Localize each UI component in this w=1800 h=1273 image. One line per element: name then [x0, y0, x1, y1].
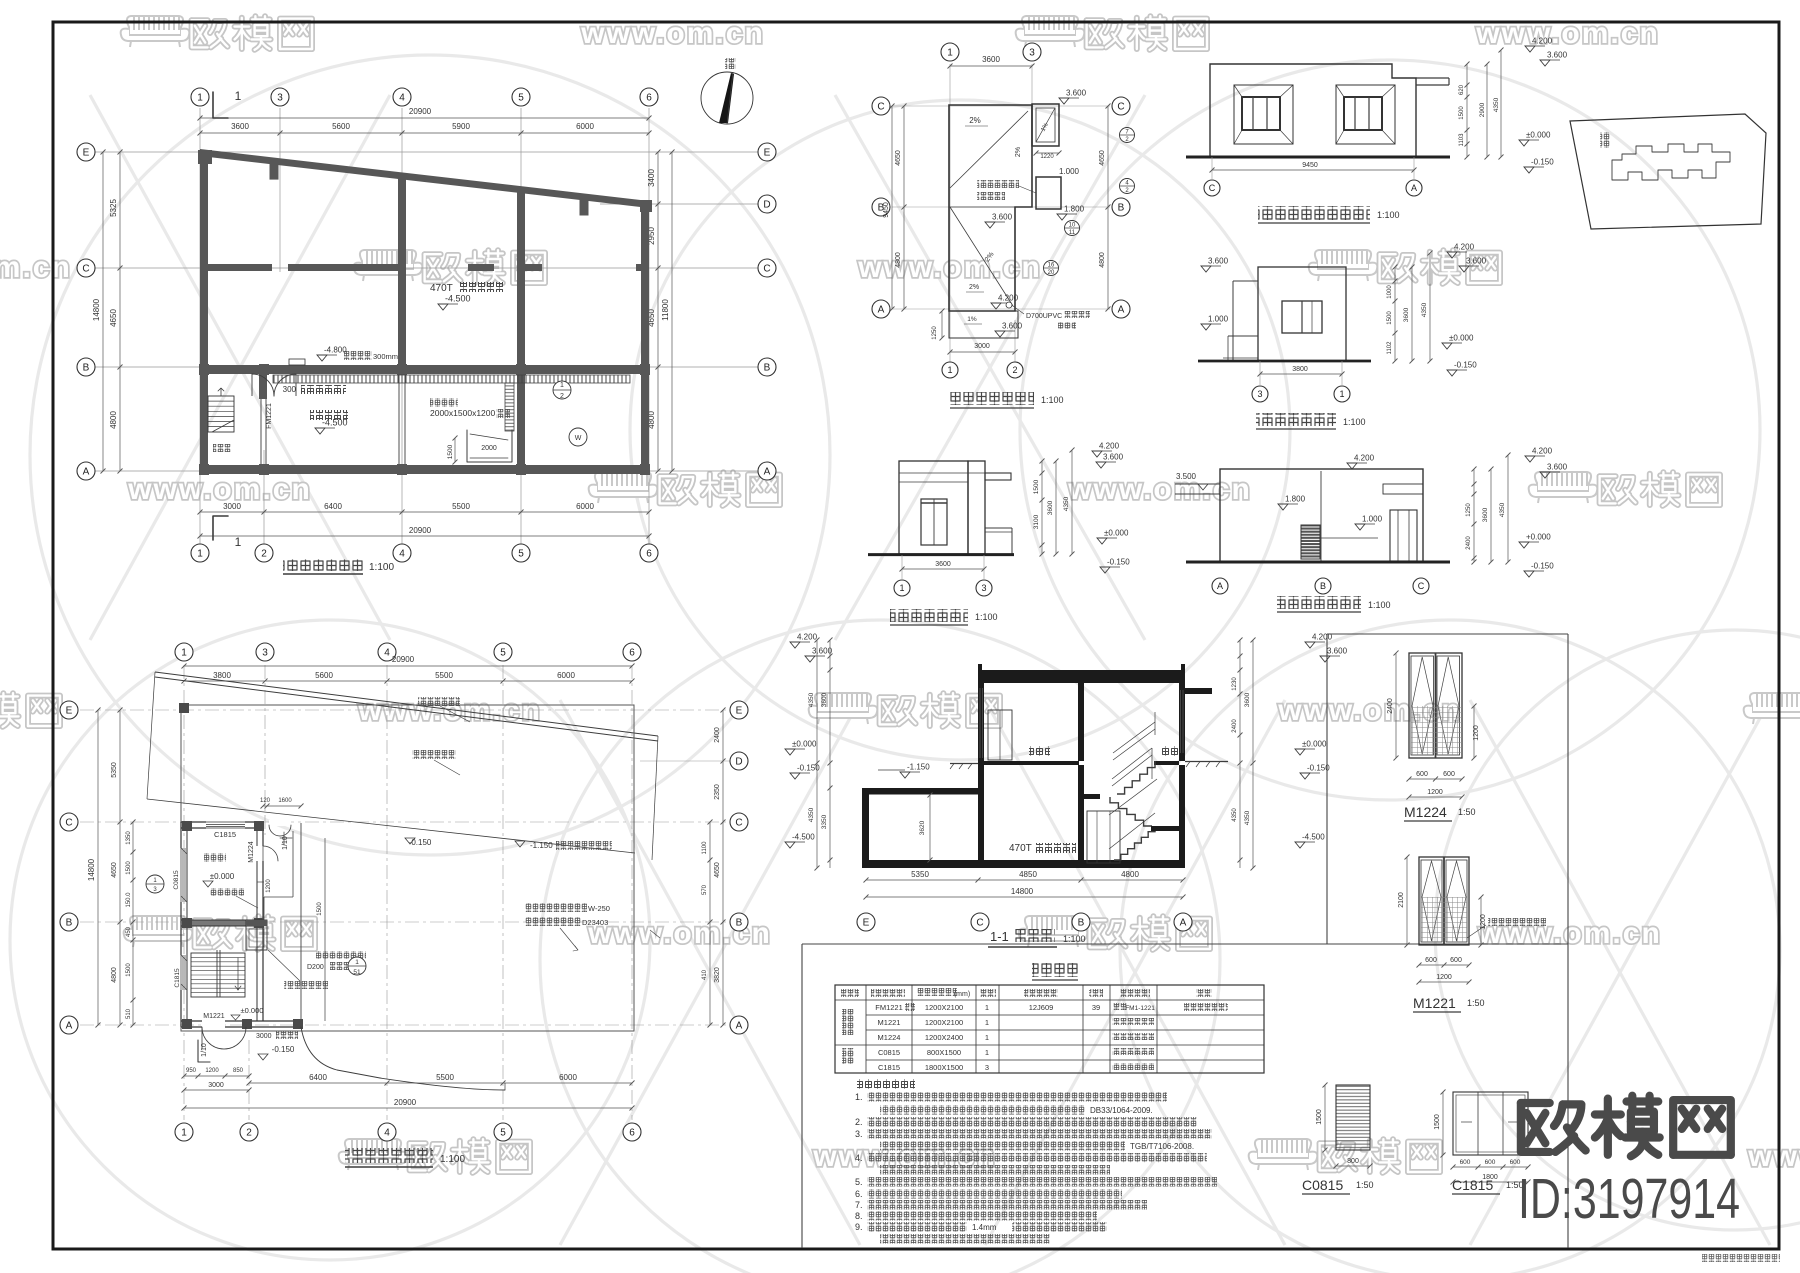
- svg-text:-4.500: -4.500: [792, 833, 815, 842]
- svg-text:3.600: 3.600: [1547, 463, 1568, 472]
- svg-text:M1221: M1221: [203, 1013, 225, 1020]
- svg-text:A: A: [1180, 918, 1187, 929]
- svg-text:1500: 1500: [447, 444, 454, 459]
- svg-text:4.200: 4.200: [1354, 454, 1375, 463]
- svg-text:1: 1: [985, 1003, 989, 1012]
- svg-text:2350: 2350: [714, 784, 721, 800]
- svg-text:510: 510: [126, 1008, 132, 1019]
- svg-text:1: 1: [355, 959, 359, 966]
- svg-text:600: 600: [1416, 771, 1428, 778]
- svg-text:3.600: 3.600: [1208, 257, 1229, 266]
- svg-text:C0815: C0815: [1302, 1177, 1343, 1193]
- svg-text:D200: D200: [307, 964, 324, 971]
- svg-text:3.500: 3.500: [1176, 472, 1197, 481]
- svg-text:C: C: [763, 264, 770, 275]
- svg-text:3.600: 3.600: [1547, 51, 1568, 60]
- svg-text:5500: 5500: [436, 1073, 454, 1082]
- svg-text:B: B: [83, 363, 90, 374]
- svg-text:600: 600: [1510, 1159, 1521, 1166]
- svg-text:C: C: [976, 918, 983, 929]
- svg-text:A: A: [736, 1021, 743, 1032]
- svg-text:-0.150: -0.150: [1307, 764, 1330, 773]
- svg-text:C: C: [65, 818, 72, 829]
- svg-text:6: 6: [629, 1128, 635, 1139]
- svg-text:±0.000: ±0.000: [1526, 131, 1551, 140]
- svg-text:B: B: [1320, 581, 1326, 591]
- svg-text:450: 450: [126, 926, 132, 937]
- svg-text:-0.150: -0.150: [272, 1045, 295, 1054]
- svg-text:C1815: C1815: [1452, 1177, 1493, 1193]
- svg-text:3.600: 3.600: [1103, 453, 1124, 462]
- svg-text:1.: 1.: [855, 1092, 863, 1102]
- svg-text:2000x1500x1200: 2000x1500x1200: [430, 408, 496, 418]
- svg-text:3000: 3000: [223, 502, 241, 511]
- svg-text:620: 620: [1459, 84, 1465, 95]
- svg-text:1: 1: [947, 48, 953, 59]
- svg-text:3.: 3.: [855, 1129, 863, 1139]
- svg-text:6000: 6000: [576, 122, 594, 131]
- svg-text:4650: 4650: [714, 862, 721, 878]
- svg-text:DB33/1064-2009.: DB33/1064-2009.: [1090, 1106, 1153, 1115]
- svg-text:2%: 2%: [969, 284, 979, 291]
- svg-text:3400: 3400: [647, 169, 656, 187]
- svg-text:±0.000: ±0.000: [241, 1006, 264, 1015]
- svg-text:4800: 4800: [111, 967, 118, 983]
- svg-text:-0.150: -0.150: [1531, 562, 1554, 571]
- svg-text:1:100: 1:100: [975, 612, 998, 622]
- svg-text:1: 1: [560, 382, 564, 389]
- svg-text:1: 1: [985, 1033, 989, 1042]
- svg-text:E: E: [83, 148, 90, 159]
- svg-text:E: E: [764, 148, 771, 159]
- svg-text:FM1221: FM1221: [266, 403, 273, 429]
- svg-text:9450: 9450: [883, 202, 890, 218]
- svg-text:1500: 1500: [1459, 106, 1465, 120]
- svg-text:3600: 3600: [1244, 692, 1251, 707]
- svg-text:2400: 2400: [1387, 698, 1394, 714]
- svg-text:3.600: 3.600: [1327, 647, 1348, 656]
- svg-text:4.200: 4.200: [1532, 447, 1553, 456]
- svg-text:1: 1: [197, 93, 203, 104]
- svg-text:1200: 1200: [1427, 789, 1443, 796]
- svg-text:1000: 1000: [1387, 285, 1393, 299]
- svg-text:850: 850: [233, 1068, 244, 1074]
- svg-text:5600: 5600: [315, 671, 333, 680]
- svg-text:1:100: 1:100: [369, 562, 394, 573]
- svg-text:4800: 4800: [1099, 252, 1106, 268]
- svg-text:20900: 20900: [394, 1098, 417, 1107]
- svg-text:20900: 20900: [409, 526, 432, 535]
- svg-text:(mm): (mm): [954, 991, 970, 998]
- svg-text:B: B: [1078, 918, 1085, 929]
- svg-text:M1224: M1224: [1404, 804, 1447, 820]
- svg-text:9450: 9450: [1302, 162, 1318, 169]
- svg-text:3600: 3600: [1047, 500, 1054, 515]
- svg-text:1102: 1102: [1387, 341, 1393, 355]
- svg-text:470T: 470T: [430, 283, 453, 294]
- svg-text:3600: 3600: [982, 55, 1000, 64]
- svg-text:1:50: 1:50: [1458, 807, 1476, 817]
- svg-text:E: E: [863, 918, 870, 929]
- svg-text:±0.000: ±0.000: [1104, 529, 1129, 538]
- svg-text:1-1: 1-1: [990, 929, 1009, 944]
- svg-text:C: C: [877, 102, 884, 113]
- svg-text:3.600: 3.600: [992, 213, 1013, 222]
- svg-text:1500: 1500: [126, 963, 132, 977]
- svg-text:C: C: [1209, 183, 1216, 193]
- svg-text:3: 3: [277, 93, 283, 104]
- svg-text:950: 950: [186, 1068, 197, 1074]
- svg-text:1:50: 1:50: [1356, 1180, 1374, 1190]
- svg-text:1200: 1200: [266, 879, 272, 893]
- svg-text:-1.150: -1.150: [907, 763, 930, 772]
- svg-text:6000: 6000: [557, 671, 575, 680]
- svg-text:-0.150: -0.150: [1531, 158, 1554, 167]
- svg-text:3600: 3600: [935, 561, 951, 568]
- svg-text:1:100: 1:100: [1041, 395, 1064, 405]
- svg-text:M1224: M1224: [248, 841, 255, 863]
- svg-text:1600: 1600: [278, 798, 292, 804]
- svg-text:1800X1500: 1800X1500: [925, 1063, 963, 1072]
- svg-text:2: 2: [560, 393, 564, 400]
- svg-text:C: C: [82, 264, 89, 275]
- svg-text:120: 120: [260, 798, 271, 804]
- svg-text:9.: 9.: [855, 1222, 863, 1232]
- svg-text:W: W: [575, 435, 582, 442]
- svg-text:6000: 6000: [576, 502, 594, 511]
- svg-text:800X1500: 800X1500: [927, 1048, 961, 1057]
- svg-text:2000: 2000: [481, 445, 497, 452]
- svg-text:4.200: 4.200: [1099, 442, 1120, 451]
- svg-text:51: 51: [353, 969, 361, 976]
- svg-text:3000: 3000: [208, 1082, 224, 1089]
- svg-text:3600: 3600: [821, 692, 828, 707]
- svg-text:6400: 6400: [324, 502, 342, 511]
- svg-text:1: 1: [235, 89, 242, 103]
- svg-text:1/10: 1/10: [201, 1043, 208, 1057]
- svg-text:B: B: [764, 363, 771, 374]
- svg-text:1.4mm: 1.4mm: [972, 1223, 997, 1232]
- svg-text:+0.000: +0.000: [1526, 533, 1551, 542]
- svg-text:-1.150: -1.150: [530, 841, 553, 850]
- svg-text:2900: 2900: [1479, 102, 1486, 117]
- svg-text:4: 4: [399, 549, 405, 560]
- svg-text:2: 2: [1012, 365, 1017, 375]
- svg-text:3: 3: [985, 1063, 989, 1072]
- svg-text:4650: 4650: [111, 862, 118, 878]
- svg-text:16: 16: [1048, 263, 1055, 269]
- svg-text:4800: 4800: [109, 411, 118, 429]
- svg-text:1: 1: [899, 583, 904, 593]
- svg-text:5350: 5350: [911, 870, 929, 879]
- svg-text:5: 5: [500, 648, 506, 659]
- svg-text:1.000: 1.000: [1208, 315, 1229, 324]
- svg-text:2.: 2.: [855, 1117, 863, 1127]
- svg-text:www.om.cn: www.om.cn: [1067, 473, 1252, 506]
- svg-text:C0815: C0815: [878, 1048, 900, 1057]
- svg-text:4: 4: [384, 1128, 390, 1139]
- svg-text:1: 1: [947, 365, 952, 375]
- svg-text:3.600: 3.600: [1466, 257, 1487, 266]
- svg-text:4.200: 4.200: [1532, 37, 1553, 46]
- svg-text:D: D: [763, 200, 770, 211]
- svg-text:TGB/T7106-2008.: TGB/T7106-2008.: [1130, 1142, 1194, 1151]
- svg-text:B: B: [66, 918, 73, 929]
- svg-text:4.200: 4.200: [998, 294, 1019, 303]
- svg-text:3820: 3820: [714, 967, 721, 983]
- svg-text:4.: 4.: [855, 1153, 863, 1163]
- svg-text:1: 1: [985, 1048, 989, 1057]
- svg-text:1200: 1200: [1473, 725, 1480, 741]
- svg-text:14800: 14800: [92, 298, 101, 321]
- svg-text:3620: 3620: [919, 820, 926, 835]
- svg-text:3350: 3350: [821, 814, 828, 829]
- svg-text:800: 800: [1347, 1158, 1359, 1165]
- svg-text:C: C: [1418, 581, 1425, 591]
- svg-text:4350: 4350: [1244, 810, 1251, 825]
- svg-text:1:100: 1:100: [440, 1154, 465, 1165]
- svg-text:5325: 5325: [109, 199, 118, 217]
- svg-text:1500: 1500: [317, 902, 323, 916]
- svg-text:2: 2: [261, 549, 267, 560]
- svg-text:14800: 14800: [87, 858, 96, 881]
- svg-text:1: 1: [235, 535, 242, 549]
- svg-text:E: E: [736, 706, 743, 717]
- svg-text:1103: 1103: [1459, 133, 1465, 147]
- svg-text:1200X2400: 1200X2400: [925, 1033, 963, 1042]
- svg-text:1/10: 1/10: [282, 836, 289, 850]
- svg-text:5: 5: [518, 93, 524, 104]
- svg-text:1200: 1200: [1480, 914, 1487, 930]
- svg-text:www.om.cn: www.om.cn: [127, 473, 312, 506]
- svg-text:6400: 6400: [309, 1073, 327, 1082]
- svg-text:5: 5: [500, 1128, 506, 1139]
- svg-text:-4.500: -4.500: [322, 418, 348, 428]
- svg-text:1220: 1220: [1040, 154, 1054, 160]
- svg-text:4800: 4800: [895, 252, 902, 268]
- svg-text:1200X2100: 1200X2100: [925, 1018, 963, 1027]
- svg-text:6: 6: [646, 549, 652, 560]
- svg-text:6000: 6000: [559, 1073, 577, 1082]
- svg-text:3600: 3600: [231, 122, 249, 131]
- svg-text:600: 600: [1485, 1159, 1496, 1166]
- svg-text:C: C: [1117, 102, 1124, 113]
- svg-text:4350: 4350: [1063, 496, 1070, 511]
- svg-text:2%: 2%: [969, 116, 981, 125]
- svg-text:1:100: 1:100: [1368, 600, 1391, 610]
- svg-text:D700UPVC: D700UPVC: [1026, 313, 1062, 320]
- svg-text:10: 10: [1069, 223, 1076, 229]
- svg-text:1250: 1250: [1466, 503, 1472, 517]
- svg-text:-0.150: -0.150: [1454, 361, 1477, 370]
- svg-text:600: 600: [1450, 957, 1462, 964]
- svg-text:W-250: W-250: [588, 904, 610, 913]
- svg-text:4650: 4650: [895, 150, 902, 166]
- svg-text:1350: 1350: [126, 831, 132, 845]
- svg-text:3800: 3800: [1292, 366, 1308, 373]
- svg-text:M1224: M1224: [878, 1033, 901, 1042]
- svg-text:4350: 4350: [1232, 808, 1238, 822]
- svg-text:2: 2: [246, 1128, 252, 1139]
- svg-text:1%: 1%: [967, 316, 977, 323]
- svg-text:6: 6: [629, 648, 635, 659]
- svg-text:5500: 5500: [452, 502, 470, 511]
- svg-text:570: 570: [702, 884, 708, 895]
- svg-text:5: 5: [518, 549, 524, 560]
- svg-text:C: C: [735, 818, 742, 829]
- svg-text:600: 600: [1425, 957, 1437, 964]
- svg-text:-4.500: -4.500: [445, 294, 471, 304]
- svg-text:11: 11: [1069, 230, 1076, 236]
- svg-text:1200X2100: 1200X2100: [925, 1003, 963, 1012]
- svg-text:±0.000: ±0.000: [210, 872, 235, 881]
- svg-text:5350: 5350: [111, 762, 118, 778]
- svg-text:A: A: [764, 467, 771, 478]
- svg-text:20900: 20900: [409, 107, 432, 116]
- svg-text:±0.000: ±0.000: [1302, 740, 1327, 749]
- svg-text:3: 3: [981, 583, 986, 593]
- svg-text:4350: 4350: [1499, 502, 1506, 517]
- svg-text:1:50: 1:50: [1467, 998, 1485, 1008]
- svg-text:3000: 3000: [256, 1033, 272, 1040]
- svg-text:5.: 5.: [855, 1177, 863, 1187]
- svg-text:1500: 1500: [126, 861, 132, 875]
- svg-text:4: 4: [399, 93, 405, 104]
- svg-text:3: 3: [1257, 389, 1262, 399]
- svg-text:B: B: [1118, 203, 1125, 214]
- svg-text:600: 600: [1443, 771, 1455, 778]
- svg-text:300: 300: [283, 385, 297, 394]
- svg-text:M1221: M1221: [878, 1018, 901, 1027]
- svg-text:4350: 4350: [1421, 302, 1428, 317]
- svg-text:4800: 4800: [1121, 870, 1139, 879]
- svg-text:1500: 1500: [1434, 1114, 1441, 1130]
- svg-text:A: A: [66, 1021, 73, 1032]
- svg-text:4650: 4650: [1099, 150, 1106, 166]
- svg-text:3600: 3600: [1403, 307, 1410, 322]
- svg-text:1.000: 1.000: [1059, 167, 1080, 176]
- svg-text:A: A: [83, 467, 90, 478]
- svg-text:470T: 470T: [1009, 843, 1032, 854]
- svg-text:A: A: [1217, 581, 1223, 591]
- svg-text:1.000: 1.000: [1362, 515, 1383, 524]
- svg-text:3: 3: [1029, 48, 1035, 59]
- svg-text:1:100: 1:100: [1377, 210, 1400, 220]
- svg-text:6.: 6.: [855, 1189, 863, 1199]
- svg-text:3100: 3100: [1033, 514, 1040, 529]
- svg-text:4.200: 4.200: [1312, 633, 1333, 642]
- svg-text:-0.150: -0.150: [409, 838, 432, 847]
- svg-text:3.600: 3.600: [1002, 322, 1023, 331]
- svg-text:3800: 3800: [213, 671, 231, 680]
- svg-text:C0815: C0815: [173, 870, 180, 890]
- svg-text:4350: 4350: [1493, 97, 1500, 112]
- svg-text:www.om.cn: www.om.cn: [1747, 1140, 1800, 1173]
- svg-text:1200: 1200: [205, 1068, 219, 1074]
- svg-text:20900: 20900: [392, 655, 415, 664]
- svg-text:1: 1: [181, 1128, 187, 1139]
- svg-text:4.200: 4.200: [797, 633, 818, 642]
- svg-text:5600: 5600: [332, 122, 350, 131]
- svg-text:-4.500: -4.500: [1302, 833, 1325, 842]
- svg-text:1.800: 1.800: [1285, 495, 1306, 504]
- svg-text:±0.000: ±0.000: [1449, 334, 1474, 343]
- svg-text:M1221: M1221: [1413, 995, 1456, 1011]
- svg-text:4850: 4850: [1019, 870, 1037, 879]
- svg-text:A: A: [1411, 183, 1417, 193]
- svg-text:4350: 4350: [808, 807, 815, 822]
- svg-text:39: 39: [1092, 1003, 1100, 1012]
- svg-text:C1815: C1815: [174, 968, 181, 988]
- svg-text:D23403: D23403: [582, 918, 608, 927]
- svg-text:ID:3197914: ID:3197914: [1518, 1167, 1740, 1231]
- svg-text:410: 410: [702, 969, 708, 980]
- svg-text:2400: 2400: [1232, 719, 1238, 733]
- svg-text:300mm: 300mm: [373, 352, 398, 361]
- svg-text:1:100: 1:100: [1343, 417, 1366, 427]
- svg-text:4350: 4350: [808, 692, 815, 707]
- svg-text:14800: 14800: [1011, 887, 1034, 896]
- svg-text:A: A: [1118, 305, 1125, 316]
- svg-text:±0.000: ±0.000: [792, 740, 817, 749]
- svg-text:-4.800: -4.800: [324, 346, 347, 355]
- svg-text:B: B: [736, 918, 743, 929]
- svg-text:A: A: [878, 305, 885, 316]
- svg-text:2400: 2400: [1466, 536, 1472, 550]
- svg-text:2400: 2400: [714, 727, 721, 743]
- svg-text:FM1-1221: FM1-1221: [1125, 1005, 1155, 1012]
- svg-text:4650: 4650: [109, 309, 118, 327]
- svg-text:1500: 1500: [1033, 479, 1040, 494]
- svg-text:FM1221: FM1221: [875, 1003, 903, 1012]
- svg-text:8.: 8.: [855, 1211, 863, 1221]
- svg-text:1: 1: [197, 549, 203, 560]
- svg-text:20: 20: [1048, 270, 1055, 276]
- svg-text:3.600: 3.600: [812, 647, 833, 656]
- svg-text:1230: 1230: [1232, 677, 1238, 691]
- svg-text:3: 3: [262, 648, 268, 659]
- svg-text:E: E: [66, 706, 73, 717]
- svg-text:3000: 3000: [974, 343, 990, 350]
- svg-text:5900: 5900: [452, 122, 470, 131]
- svg-text:1.800: 1.800: [1064, 205, 1085, 214]
- svg-text:4: 4: [384, 648, 390, 659]
- svg-text:1: 1: [1339, 389, 1344, 399]
- svg-text:150.0: 150.0: [126, 892, 132, 908]
- svg-text:3.600: 3.600: [1066, 89, 1087, 98]
- svg-text:11800: 11800: [661, 299, 670, 321]
- svg-text:-0.150: -0.150: [1107, 558, 1130, 567]
- svg-text:2%: 2%: [1015, 147, 1022, 157]
- svg-text:12J609: 12J609: [1029, 1003, 1054, 1012]
- svg-text:C1815: C1815: [214, 830, 236, 839]
- svg-text:6: 6: [646, 93, 652, 104]
- svg-text:7.: 7.: [855, 1200, 863, 1210]
- svg-text:1:100: 1:100: [1063, 934, 1086, 944]
- svg-text:600: 600: [1460, 1159, 1471, 1166]
- svg-text:1500: 1500: [1387, 311, 1393, 325]
- svg-text:3600: 3600: [1482, 507, 1489, 522]
- svg-text:1250: 1250: [932, 326, 938, 340]
- svg-text:www.om.cn: www.om.cn: [0, 251, 72, 284]
- svg-text:4.200: 4.200: [1454, 243, 1475, 252]
- svg-text:1: 1: [985, 1018, 989, 1027]
- svg-text:C1815: C1815: [878, 1063, 900, 1072]
- svg-text:1500: 1500: [1316, 1109, 1323, 1125]
- svg-text:5500: 5500: [435, 671, 453, 680]
- svg-text:1200: 1200: [1436, 974, 1452, 981]
- svg-text:2100: 2100: [1398, 892, 1405, 908]
